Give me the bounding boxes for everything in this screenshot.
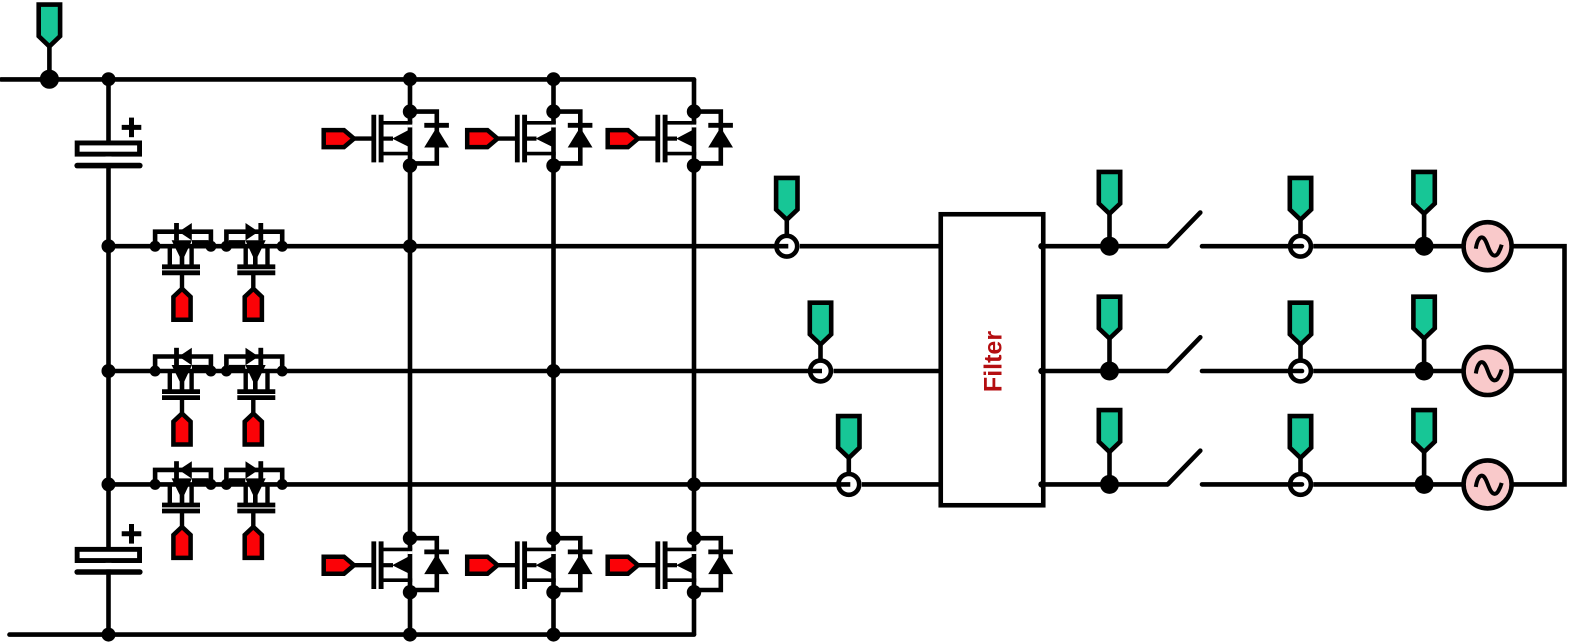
svg-text:Filter: Filter (980, 331, 1008, 392)
